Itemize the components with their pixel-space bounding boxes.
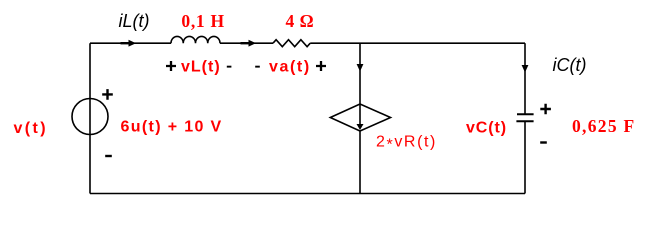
svg-text:4 Ω: 4 Ω <box>286 11 315 31</box>
polarity + of source <box>102 89 113 100</box>
polarity - of vL(t) <box>227 66 232 68</box>
wire: top left segment <box>90 42 171 44</box>
dependent source arrow shaft <box>359 104 361 125</box>
svg-text:iC(t): iC(t) <box>553 55 587 75</box>
current arrow iC(t) on right branch <box>522 65 529 73</box>
current arrow after inductor <box>249 40 257 47</box>
wire: middle vertical below diamond <box>359 131 361 194</box>
voltage source circle v(t) <box>72 99 108 135</box>
svg-text:va(t): va(t) <box>269 59 311 76</box>
resistor R 4 ohm <box>273 40 310 47</box>
dependent source diamond 2*vR(t) <box>330 104 390 131</box>
svg-text:6u(t) + 10 V: 6u(t) + 10 V <box>121 119 223 136</box>
svg-text:vL(t): vL(t) <box>181 59 221 76</box>
wire: middle vertical above diamond <box>359 43 361 104</box>
wire: right vertical above capacitor <box>524 43 526 114</box>
svg-text:0,625 F: 0,625 F <box>572 116 636 136</box>
svg-text:2*vR(t): 2*vR(t) <box>376 134 437 154</box>
polarity - of va(t) <box>255 66 260 68</box>
wire: left vertical branch <box>89 43 91 193</box>
wire: bottom rail <box>90 193 525 195</box>
wire: top right segment <box>310 42 525 44</box>
svg-text:vC(t): vC(t) <box>466 120 507 137</box>
polarity + of vL(t) <box>166 61 176 71</box>
polarity + of capacitor <box>540 104 551 115</box>
svg-text:iL(t): iL(t) <box>119 11 150 31</box>
wire: right vertical below capacitor <box>524 121 526 193</box>
dependent source arrowhead <box>357 124 364 130</box>
current arrow iL(t) on top wire <box>129 40 137 47</box>
svg-text:0,1 H: 0,1 H <box>181 11 224 31</box>
svg-text:v(t): v(t) <box>14 120 48 137</box>
capacitor C plates <box>516 114 533 121</box>
wire: between inductor and resistor <box>220 42 273 44</box>
polarity + of va(t) <box>316 61 326 71</box>
polarity - of capacitor <box>540 141 547 143</box>
current arrow on middle branch <box>357 64 364 72</box>
polarity - of source <box>105 155 112 157</box>
inductor L 0,1 H <box>171 36 220 43</box>
